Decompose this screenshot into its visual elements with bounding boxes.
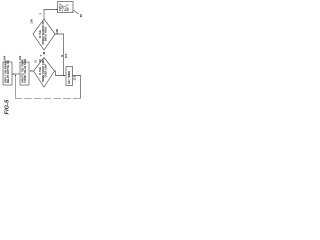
wire return loop bottom horizontal bbox=[16, 97, 81, 100]
svg-text:112: 112 bbox=[73, 75, 77, 80]
svg-text:RET 0: RET 0 bbox=[66, 4, 69, 12]
box R2 bbox=[66, 67, 73, 86]
svg-text:N: N bbox=[60, 55, 64, 57]
svg-text:02: 02 bbox=[38, 59, 42, 63]
svg-text:SET TIMER: SET TIMER bbox=[68, 71, 71, 84]
svg-text:108: 108 bbox=[55, 29, 59, 34]
svg-text:FIG-5: FIG-5 bbox=[5, 99, 11, 114]
svg-text:110: 110 bbox=[64, 53, 68, 58]
wire leader line from R1 bbox=[73, 10, 79, 14]
node arrowhead into A bbox=[12, 73, 14, 75]
wire D1 right branch to junction bbox=[55, 34, 64, 76]
svg-text:96: 96 bbox=[79, 14, 83, 18]
svg-text:104: 104 bbox=[2, 55, 6, 60]
diamond D1 bbox=[33, 19, 55, 50]
node junction dot bbox=[63, 75, 64, 76]
svg-text:RELAY SWITCH ON: RELAY SWITCH ON bbox=[7, 60, 10, 83]
node arrowhead into R2 bbox=[64, 75, 66, 77]
box B bbox=[20, 62, 29, 85]
svg-text:Y: Y bbox=[39, 55, 43, 57]
svg-text:Y: Y bbox=[38, 13, 42, 15]
svg-text:INPUT HIGH: INPUT HIGH bbox=[45, 27, 48, 41]
svg-text:N: N bbox=[34, 60, 38, 62]
node arrowhead into R1 bbox=[56, 9, 58, 11]
box A bbox=[3, 62, 12, 85]
svg-text:COUNT VALUE NOW: COUNT VALUE NOW bbox=[24, 58, 27, 83]
diamond D2 bbox=[34, 58, 55, 88]
node arrowhead into B bbox=[30, 70, 32, 72]
wire return loop left vertical up bbox=[14, 75, 17, 99]
svg-text:100: 100 bbox=[29, 19, 33, 24]
wire arrow D1 bottom to D2 top bbox=[43, 52, 46, 55]
svg-text:OVER LIMIT: OVER LIMIT bbox=[45, 63, 48, 77]
wire D2 right branch jog down to R2 entry level bbox=[55, 71, 66, 76]
wire connector between A and B bbox=[12, 73, 20, 76]
wire D2 left branch to box B bbox=[30, 70, 33, 73]
box R1 bbox=[58, 2, 74, 13]
node arrowhead up into A-B connector bbox=[15, 74, 17, 76]
wire return loop from R2 right and down bbox=[73, 76, 81, 99]
wire from diamond D1 top to box R1 bbox=[44, 10, 57, 20]
